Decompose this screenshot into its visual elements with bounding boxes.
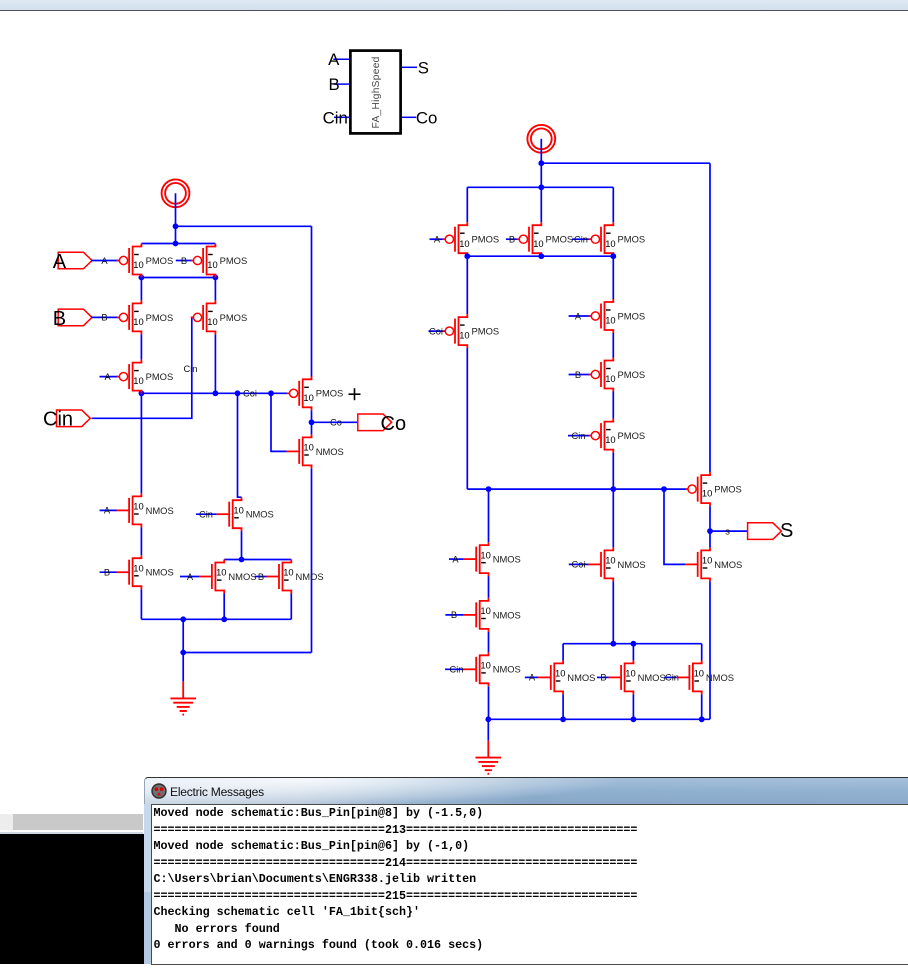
junction [631, 641, 637, 647]
junction [139, 275, 145, 281]
svg-text:10: 10 [207, 316, 217, 327]
wire [710, 530, 748, 532]
svg-text:PMOS: PMOS [220, 312, 248, 323]
svg-text:10: 10 [694, 668, 704, 679]
wire [238, 393, 242, 497]
junction [610, 253, 616, 259]
ground symbol GND right [476, 741, 502, 774]
wire [709, 163, 711, 472]
svg-text:10: 10 [133, 562, 143, 573]
svg-text:A: A [187, 572, 194, 582]
junction [180, 616, 186, 622]
svg-text:B: B [181, 256, 187, 266]
wire [467, 186, 613, 188]
wire [540, 163, 542, 222]
svg-text:10: 10 [133, 375, 143, 386]
svg-text:10: 10 [555, 668, 565, 679]
wire [290, 594, 292, 620]
svg-text:PMOS: PMOS [618, 430, 646, 441]
wire [488, 718, 710, 720]
transistor PMOS Cin row2 (PMOS) [191, 300, 248, 334]
svg-text:10: 10 [480, 660, 490, 671]
svg-text:PMOS: PMOS [618, 310, 646, 321]
junction [213, 275, 219, 281]
wire [664, 489, 685, 564]
wire [562, 694, 564, 719]
svg-text:10: 10 [702, 555, 712, 566]
wire [100, 376, 120, 378]
junction [610, 486, 616, 492]
wire [562, 644, 564, 661]
wire [664, 676, 677, 678]
svg-text:10: 10 [605, 434, 615, 445]
transistor PMOS A row3 (PMOS) [117, 360, 174, 394]
wire [100, 571, 117, 573]
svg-text:10: 10 [233, 504, 243, 515]
wire [430, 238, 446, 240]
export pin B [58, 309, 92, 326]
transistor PMOS A series (PMOS) [589, 299, 646, 333]
svg-text:10: 10 [207, 259, 217, 270]
wire [569, 315, 592, 317]
svg-text:10: 10 [459, 238, 469, 249]
svg-text:NMOS: NMOS [296, 571, 324, 582]
wire [196, 513, 217, 515]
wire [612, 581, 614, 643]
svg-text:NMOS: NMOS [228, 571, 256, 582]
wire [612, 453, 614, 490]
junction [538, 253, 544, 259]
svg-text:10: 10 [303, 442, 313, 453]
wire [709, 581, 711, 719]
svg-text:A: A [434, 235, 441, 245]
wire [180, 576, 199, 578]
svg-text:10: 10 [283, 567, 293, 578]
wire [141, 277, 215, 279]
junction [661, 486, 667, 492]
svg-text:B: B [104, 568, 110, 578]
svg-text:Cin: Cin [450, 665, 464, 675]
transistor PMOS B top-right (PMOS) [191, 244, 248, 278]
wire [140, 527, 142, 555]
wire [466, 187, 468, 222]
wire [466, 348, 468, 489]
wire [255, 576, 267, 578]
svg-text:NMOS: NMOS [493, 554, 521, 565]
svg-text:NMOS: NMOS [146, 505, 174, 516]
wire [701, 694, 703, 719]
svg-text:B: B [329, 75, 340, 94]
svg-text:PMOS: PMOS [316, 388, 344, 399]
wire [141, 392, 289, 394]
wire [563, 643, 702, 645]
wire net Cin [92, 317, 194, 418]
junction [464, 253, 470, 259]
transistor PMOS Co out (PMOS) [287, 376, 344, 410]
wire [224, 559, 291, 561]
wire [311, 468, 313, 652]
wire [214, 334, 216, 393]
desktop black area [0, 834, 144, 965]
wire [597, 676, 609, 678]
wire [214, 278, 216, 301]
port wire A [333, 58, 349, 60]
svg-text:Co: Co [416, 109, 437, 128]
transistor NMOS A mid (NMOS) [199, 560, 256, 594]
svg-text:PMOS: PMOS [618, 369, 646, 380]
junction [268, 390, 274, 396]
junction [631, 716, 637, 722]
svg-text:10: 10 [459, 330, 469, 341]
svg-text:S: S [780, 520, 793, 542]
svg-text:NMOS: NMOS [706, 672, 734, 683]
svg-text:Coi: Coi [243, 389, 257, 399]
wire [449, 558, 464, 560]
svg-text:B: B [509, 235, 515, 245]
svg-text:PMOS: PMOS [146, 371, 174, 382]
junction [538, 184, 544, 190]
port wire Co [402, 116, 416, 118]
wire [100, 509, 117, 511]
wire [311, 226, 313, 376]
svg-text:PMOS: PMOS [546, 234, 574, 245]
svg-text:Coi: Coi [572, 560, 586, 570]
wire [140, 589, 142, 619]
wire [311, 410, 313, 434]
svg-text:A: A [452, 554, 459, 564]
transistor NMOS B left (NMOS) [117, 555, 174, 589]
svg-text:A: A [575, 311, 582, 321]
wire [568, 435, 591, 437]
svg-text:10: 10 [533, 238, 543, 249]
junction [538, 160, 544, 166]
svg-text:Cin: Cin [323, 109, 348, 128]
svg-text:A: A [53, 251, 67, 273]
svg-text:PMOS: PMOS [618, 234, 646, 245]
junction [239, 557, 245, 563]
svg-text:PMOS: PMOS [714, 484, 742, 495]
svg-text:10: 10 [605, 555, 615, 566]
wire [487, 719, 489, 740]
port wire B [334, 83, 350, 85]
wire [572, 238, 591, 240]
svg-text:A: A [104, 372, 111, 382]
wire [612, 489, 614, 547]
transistor NMOS S out (NMOS) [685, 547, 742, 581]
svg-text:B: B [451, 610, 457, 620]
Electric Messages window [144, 777, 908, 964]
svg-text:10: 10 [625, 668, 635, 679]
wire [91, 316, 119, 318]
transistor PMOS Cin series (PMOS) [589, 419, 646, 453]
wire [632, 694, 634, 719]
svg-text:Coi: Coi [429, 326, 443, 336]
wire [175, 193, 177, 226]
svg-text:NMOS: NMOS [146, 567, 174, 578]
svg-text:Cin: Cin [574, 235, 588, 245]
transistor PMOS B series (PMOS) [589, 358, 646, 392]
wire [91, 260, 119, 262]
svg-text:NMOS: NMOS [714, 559, 742, 570]
wire [176, 225, 312, 227]
wire [612, 333, 614, 358]
junction [221, 616, 227, 622]
svg-text:Cin: Cin [43, 409, 73, 431]
ground symbol GND left [170, 681, 196, 714]
wire [445, 614, 463, 616]
transistor NMOS Co out (NMOS) [287, 434, 344, 468]
junction [235, 390, 241, 396]
junction [610, 641, 616, 647]
wire [541, 162, 710, 164]
wire [701, 644, 703, 661]
svg-text:10: 10 [605, 315, 615, 326]
svg-text:NMOS: NMOS [567, 672, 595, 683]
svg-text:Cin: Cin [572, 431, 586, 441]
wire [141, 618, 291, 620]
svg-text:10: 10 [133, 501, 143, 512]
svg-text:NMOS: NMOS [618, 559, 646, 570]
wire [176, 260, 194, 262]
wire [466, 256, 468, 314]
wire [312, 421, 358, 423]
transistor NMOS A left (NMOS) [117, 493, 174, 527]
wire [141, 243, 215, 245]
transistor NMOS Coi (NMOS) [588, 547, 645, 581]
wire [290, 559, 292, 561]
svg-text:NMOS: NMOS [493, 664, 521, 675]
transistor PMOS B top (PMOS) [517, 222, 574, 256]
wire [140, 334, 142, 359]
transistor NMOS Cin chain (NMOS) [464, 652, 521, 686]
svg-text:PMOS: PMOS [472, 326, 500, 337]
svg-text:A: A [101, 256, 108, 266]
transistor NMOS A par (NMOS) [538, 660, 595, 694]
wire [525, 676, 538, 678]
transistor PMOS Cin top (PMOS) [589, 222, 646, 256]
svg-text:Co: Co [330, 418, 342, 428]
wire [612, 256, 614, 299]
svg-text:10: 10 [216, 567, 226, 578]
wire [612, 187, 614, 222]
svg-text:10: 10 [702, 488, 712, 499]
wire [569, 563, 589, 565]
svg-text:PMOS: PMOS [146, 255, 174, 266]
svg-text:A: A [104, 506, 111, 516]
wire [183, 652, 311, 654]
wire [569, 374, 592, 376]
wire [488, 576, 490, 598]
transistor NMOS B right (NMOS) [266, 560, 323, 594]
export pin A [58, 252, 92, 269]
export pin Cin [56, 410, 90, 427]
wire [709, 506, 711, 547]
wire [175, 226, 177, 243]
svg-text:Co: Co [381, 413, 407, 435]
wire [488, 632, 490, 652]
svg-text:FA_HighSpeed: FA_HighSpeed [371, 56, 382, 128]
svg-text:10: 10 [303, 392, 313, 403]
wire [488, 489, 490, 542]
wire [223, 594, 225, 620]
junction [180, 650, 186, 656]
wire [506, 238, 519, 240]
Electric icon [151, 783, 167, 799]
export pin Co [358, 414, 392, 431]
transistor NMOS B par (NMOS) [609, 660, 666, 694]
svg-text:B: B [575, 370, 581, 380]
svg-text:NMOS: NMOS [493, 609, 521, 620]
wire [467, 488, 688, 490]
wire [612, 392, 614, 419]
svg-text:A: A [529, 673, 536, 683]
svg-text:NMOS: NMOS [316, 446, 344, 457]
junction [173, 241, 179, 247]
wire [540, 139, 542, 163]
wire [488, 686, 490, 719]
port wire Cin [334, 116, 349, 118]
wire [140, 393, 142, 493]
wire [271, 393, 287, 451]
svg-text:Cin: Cin [184, 364, 198, 374]
svg-text:B: B [600, 673, 606, 683]
transistor NMOS A chain (NMOS) [464, 542, 521, 576]
cell instance FA_HighSpeed [350, 51, 400, 134]
junction [173, 223, 179, 229]
transistor NMOS B chain (NMOS) [464, 598, 521, 632]
window top bar [0, 0, 908, 11]
transistor PMOS S out (PMOS) [685, 472, 742, 506]
transistor PMOS Coi (PMOS) [443, 314, 500, 348]
transistor PMOS B row2 (PMOS) [117, 300, 174, 334]
svg-text:A: A [328, 50, 340, 69]
junction [699, 716, 705, 722]
wire [467, 255, 613, 257]
svg-text:Cin: Cin [199, 510, 213, 520]
wire [445, 668, 464, 670]
transistor NMOS Cin par (NMOS) [677, 660, 734, 694]
mouse crosshair [349, 388, 361, 400]
svg-text:10: 10 [480, 605, 490, 616]
port wire S [402, 66, 417, 68]
svg-text:S: S [418, 59, 429, 78]
svg-text:10: 10 [133, 259, 143, 270]
svg-text:10: 10 [480, 549, 490, 560]
bottom-left grey strip [0, 814, 143, 830]
svg-text:B: B [101, 313, 107, 323]
junction [213, 390, 219, 396]
wire [182, 619, 184, 652]
junction [485, 716, 491, 722]
wire [632, 644, 634, 661]
transistor NMOS Cin mid (NMOS) [217, 497, 274, 531]
node S [707, 528, 713, 534]
transistor PMOS A top (PMOS) [443, 222, 500, 256]
junction [139, 390, 145, 396]
node Co [309, 419, 315, 425]
junction [486, 486, 492, 492]
wire [429, 330, 446, 332]
svg-text:NMOS: NMOS [638, 672, 666, 683]
power symbol VDD right (VDD) [527, 125, 555, 153]
svg-text:PMOS: PMOS [146, 312, 174, 323]
svg-text:B: B [53, 308, 66, 330]
transistor PMOS A top-left (PMOS) [117, 244, 174, 278]
svg-text:NMOS: NMOS [246, 509, 274, 520]
svg-text:10: 10 [605, 238, 615, 249]
wire [182, 653, 184, 682]
svg-text:PMOS: PMOS [220, 255, 248, 266]
svg-text:10: 10 [605, 373, 615, 384]
svg-text:10: 10 [133, 316, 143, 327]
svg-text:PMOS: PMOS [472, 234, 500, 245]
wire [241, 531, 243, 559]
power symbol VDD left (VDD) [162, 179, 190, 207]
svg-text:B: B [258, 572, 264, 582]
junction [560, 716, 566, 722]
svg-text:s: s [725, 526, 730, 536]
wire [140, 278, 142, 301]
export pin S [748, 523, 782, 540]
